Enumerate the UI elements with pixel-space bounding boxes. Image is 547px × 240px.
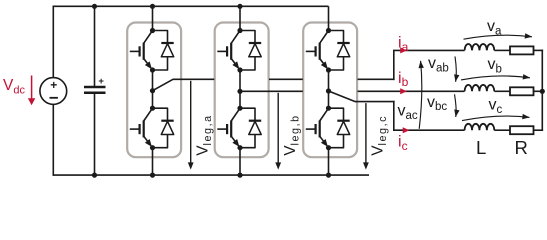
leg c enclosure box <box>303 23 357 158</box>
arrow: vab reference (down, a to b) <box>455 56 456 81</box>
wire: leg b midpoint (between IGBTs) <box>239 70 241 108</box>
junction: top bus / capacitor <box>92 4 97 9</box>
leg a enclosure box <box>127 23 181 158</box>
diode Q5D (freewheeling, in parallel with IGBT) <box>329 31 350 71</box>
resistor R (phase c) <box>510 126 534 134</box>
inductor L (phase b) <box>465 85 495 91</box>
capacitor Cdc (DC-link) <box>84 6 106 175</box>
junction: bottom bus / capacitor <box>92 173 97 178</box>
wire: phase c line <box>393 129 465 131</box>
node: emitter of Q6 <box>326 145 331 150</box>
junction: bottom bus / leg c <box>326 173 331 178</box>
arrow: Vleg,c reference (down) <box>363 103 369 170</box>
node: emitter of Q4 <box>237 145 242 150</box>
diode Q2D (freewheeling, in parallel with IGBT) <box>153 108 174 148</box>
wire: phase b between L and R <box>494 90 510 92</box>
junction: leg a output tap <box>150 88 155 93</box>
wire: left branch lower (Vdc to bottom bus) <box>52 104 54 175</box>
wire: left branch upper (Vdc to top bus) <box>52 6 54 78</box>
junction: leg b output tap <box>237 89 242 94</box>
node: collector of Q4 <box>237 106 242 111</box>
IGBT Q4 <box>217 108 240 147</box>
wire: top DC bus <box>53 5 328 7</box>
node: collector of Q1 <box>150 28 155 33</box>
arrow+label vb (phase b voltage) <box>461 76 530 80</box>
arrow: vac reference (up, c to a) <box>419 61 422 129</box>
IGBT Q2 <box>130 108 153 147</box>
wire: phase c to neutral bus <box>534 129 544 131</box>
node: collector of Q2 <box>150 106 155 111</box>
junction: bottom bus / leg b <box>237 173 242 178</box>
wire: top bus drop into leg c <box>328 6 330 30</box>
diode Q3D (freewheeling, in parallel with IGBT) <box>240 31 261 71</box>
wire: right neutral bus <box>541 50 543 131</box>
junction: leg c output tap <box>326 88 331 93</box>
wire: leg c midpoint (between IGBTs) <box>328 70 330 108</box>
wire: leg c output (phase c, to ic drop) <box>329 91 395 130</box>
arrow: phase current direction (red) <box>400 88 407 94</box>
diode Q1D (freewheeling, in parallel with IGBT) <box>153 31 174 71</box>
arrow: phase current direction (red) <box>400 47 407 53</box>
inductor L (phase c) <box>465 124 495 130</box>
arrow: Vleg,b reference (down) <box>275 93 281 170</box>
arrow+label vc (phase c voltage) <box>462 116 530 121</box>
IGBT Q5 <box>306 31 329 70</box>
arrow: vbc reference (down, b to c) <box>455 94 457 117</box>
arrow+label va (phase a voltage) <box>464 35 533 39</box>
svg-text:L: L <box>476 137 486 158</box>
diode Q4D (freewheeling, in parallel with IGBT) <box>240 108 261 148</box>
node: collector of Q5 <box>326 28 331 33</box>
arrow: Vleg,a reference (down) <box>188 81 194 170</box>
node: emitter of Q3 <box>237 67 242 72</box>
IGBT Q1 <box>130 31 153 70</box>
wire: leg b output (phase b) <box>240 90 465 92</box>
wire: phase b to neutral bus <box>534 90 544 92</box>
node: collector of Q3 <box>237 28 242 33</box>
wire: phase a to neutral bus <box>534 49 544 51</box>
wire: phase a between L and R <box>494 49 510 51</box>
diode Q6D (freewheeling, in parallel with IGBT) <box>329 108 350 148</box>
node: emitter of Q2 <box>150 145 155 150</box>
node: collector of Q6 <box>326 106 331 111</box>
wire: leg a bottom to negative bus <box>152 148 154 175</box>
node: emitter of Q5 <box>326 67 331 72</box>
inductor L (phase a) <box>465 44 495 50</box>
wire: leg c bottom to negative bus <box>328 148 330 175</box>
svg-text:+: + <box>50 78 57 92</box>
wire: leg a output (phase a, to ia riser) <box>153 50 395 90</box>
svg-text:+: + <box>98 76 104 87</box>
IGBT Q3 <box>217 31 240 70</box>
wire: leg b bottom to negative bus <box>239 148 241 175</box>
wire: phase a line <box>393 49 465 51</box>
junction: top bus / leg b <box>237 4 242 9</box>
wire: leg a midpoint (between IGBTs) <box>152 70 154 108</box>
resistor R (phase b) <box>510 87 534 95</box>
svg-text:R: R <box>515 137 528 158</box>
wire: phase c between L and R <box>494 129 510 131</box>
junction: bottom bus / leg a <box>150 173 155 178</box>
junction: top bus / leg a <box>150 4 155 9</box>
arrow: phase current direction (red) <box>403 127 410 133</box>
wire: bottom DC bus <box>53 174 369 176</box>
voltage source Vdc (circle with + and -) <box>40 78 67 105</box>
IGBT Q6 <box>306 108 329 147</box>
leg b enclosure box <box>215 23 269 158</box>
resistor R (phase a) <box>510 46 534 54</box>
wire: top bus drop into leg a <box>152 6 154 30</box>
wire: top bus drop into leg b <box>239 6 241 30</box>
node: emitter of Q1 <box>150 67 155 72</box>
junction: neutral bus / phase b <box>540 89 545 94</box>
arrow: Vdc reference direction (red, downward) <box>28 76 35 106</box>
